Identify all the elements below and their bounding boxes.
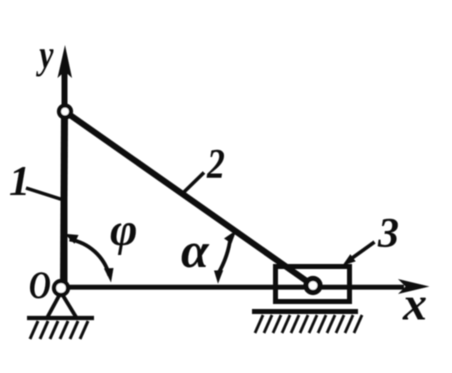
origin pin O (54, 281, 68, 295)
alpha angle arc (219, 238, 231, 274)
crank link 1 (64, 112, 65, 289)
slider pin B (306, 279, 320, 293)
origin support triangle right leg (62, 294, 76, 317)
svg-text:y: y (36, 33, 55, 77)
origin ground line (27, 316, 94, 320)
slider 3 body (276, 267, 350, 302)
leader line for 1 (26, 188, 62, 200)
svg-text:O: O (29, 263, 51, 306)
svg-text:1: 1 (9, 159, 30, 205)
phi angle arc (70, 240, 110, 276)
x-axis arrowhead (398, 279, 430, 294)
alpha arc arrowhead lower (214, 270, 223, 284)
y-axis (62, 62, 68, 288)
slider ground line (252, 309, 358, 314)
svg-text:2: 2 (206, 141, 225, 187)
y-axis arrowhead (58, 45, 73, 78)
phi arc arrowhead upper (65, 234, 79, 244)
origin support triangle left leg (48, 294, 61, 317)
x-axis (60, 285, 404, 290)
svg-text:α: α (181, 222, 210, 278)
slider ground hatching (255, 315, 362, 333)
leader line for 2 (184, 173, 204, 193)
svg-text:x: x (402, 278, 427, 331)
crank top pivot A (59, 106, 71, 118)
svg-text:φ: φ (110, 204, 138, 256)
svg-text:3: 3 (377, 211, 399, 257)
phi arc arrowhead lower (104, 268, 114, 283)
alpha arc arrowhead upper (224, 230, 237, 244)
leader line for 3 (348, 242, 375, 261)
leader 3 arrowhead (343, 254, 356, 265)
origin ground hatching (30, 321, 88, 339)
connecting rod link 2 (65, 112, 313, 286)
